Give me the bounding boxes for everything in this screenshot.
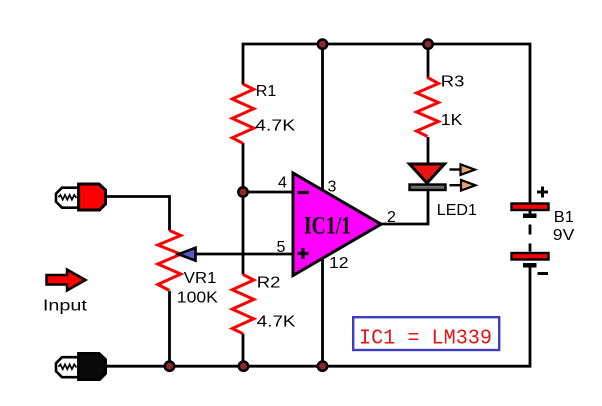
wire R3 to LED — [427, 137, 430, 163]
red probe body — [79, 184, 106, 210]
junction node top pin3 — [318, 40, 327, 49]
LED emission arrow lower — [450, 180, 476, 191]
battery B1 cell 2 plate short — [523, 263, 537, 268]
wiper arrow VR1 — [179, 248, 196, 261]
op-amp minus symbol — [298, 191, 310, 194]
svg-text:12: 12 — [329, 255, 349, 272]
resistor R2 — [232, 275, 254, 334]
svg-text:5: 5 — [277, 239, 286, 256]
battery cell connector stub — [529, 210, 532, 218]
wire R1 to R2 branch (inverting input node) — [242, 143, 245, 275]
junction node inverting input — [238, 187, 247, 196]
svg-text:Input: Input — [43, 298, 88, 315]
red probe tip spring — [56, 188, 79, 208]
input arrow — [47, 270, 86, 291]
battery B1 cell 2 plate long — [512, 253, 549, 260]
wire top rail V+ — [243, 44, 530, 204]
svg-text:IC1/1: IC1/1 — [304, 211, 351, 240]
battery plus symbol — [537, 187, 548, 198]
junction node top R3 — [423, 40, 432, 49]
black probe tip spring — [56, 357, 79, 377]
potentiometer VR1 — [158, 231, 181, 291]
wire R3 top — [427, 44, 430, 78]
wire wiper to pin 5 — [190, 253, 293, 256]
svg-text:3: 3 — [328, 179, 337, 196]
wire pin 4 input — [243, 191, 293, 194]
svg-text:VR1: VR1 — [184, 270, 217, 287]
junction node ground VR1 — [165, 362, 174, 371]
battery B1 cell 1 plate long — [512, 204, 549, 211]
black probe body — [79, 354, 106, 380]
battery B1 cell 1 plate short — [523, 214, 537, 219]
wire bottom rail ground — [106, 267, 530, 366]
battery minus symbol — [538, 272, 549, 275]
resistor R3 — [417, 78, 439, 137]
battery dashed link — [529, 225, 532, 252]
svg-text:4.7K: 4.7K — [255, 118, 295, 135]
wire LED to pin 2 output — [381, 190, 428, 224]
svg-text:R3: R3 — [441, 74, 465, 91]
junction node ground pin12 — [318, 362, 327, 371]
svg-text:R1: R1 — [256, 83, 277, 100]
resistor R1 — [232, 84, 254, 143]
LED LED1 — [410, 164, 446, 190]
svg-text:100K: 100K — [177, 290, 218, 307]
wire R2 bottom — [242, 334, 245, 367]
svg-text:1K: 1K — [441, 112, 463, 129]
svg-text:B1: B1 — [554, 209, 574, 226]
wire VR1 bottom — [168, 291, 171, 366]
svg-text:2: 2 — [387, 209, 396, 226]
svg-text:4: 4 — [278, 175, 287, 192]
junction node ground R2 — [239, 362, 248, 371]
LED emission arrow upper — [450, 164, 476, 175]
annotation box IC1 = LM339 — [353, 317, 499, 350]
svg-text:R2: R2 — [257, 275, 281, 292]
wire pin3/pin12 branch — [321, 44, 324, 366]
svg-text:9V: 9V — [553, 227, 575, 244]
op-amp plus symbol — [298, 248, 309, 259]
wire red probe to VR1 top — [106, 197, 170, 231]
op-amp U1 comparator IC1/1 — [293, 173, 381, 276]
svg-text:LED1: LED1 — [437, 202, 477, 219]
svg-text:IC1 = LM339: IC1 = LM339 — [359, 327, 492, 351]
svg-text:4.7K: 4.7K — [257, 314, 296, 331]
